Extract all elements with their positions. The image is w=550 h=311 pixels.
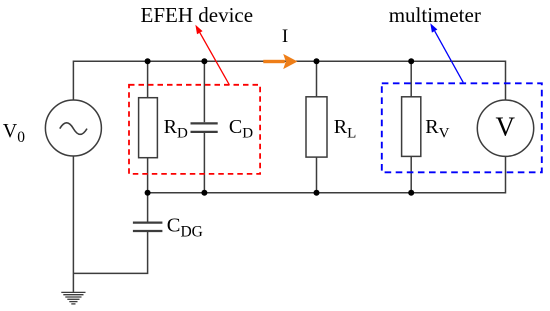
svg-text:EFEH device: EFEH device bbox=[141, 3, 254, 27]
svg-text:I: I bbox=[282, 26, 288, 47]
svg-text:V: V bbox=[496, 112, 516, 142]
svg-text:multimeter: multimeter bbox=[389, 3, 481, 27]
